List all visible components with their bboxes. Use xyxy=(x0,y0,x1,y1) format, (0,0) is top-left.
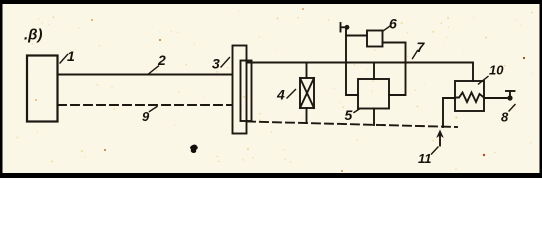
plug symbol 8: node dot xyxy=(507,95,512,100)
svg-text:4: 4 xyxy=(276,87,285,103)
leader for label 3 xyxy=(221,58,230,68)
valve 5 bottom stub xyxy=(373,109,375,126)
svg-text:.β): .β) xyxy=(24,27,42,44)
plug symbol 8: stem xyxy=(509,91,511,98)
plug symbol left: tie xyxy=(341,26,346,28)
leader for label 2 xyxy=(149,66,159,74)
return dashed line xyxy=(247,122,457,128)
leader for label 4 xyxy=(287,90,296,99)
throttle 4 box xyxy=(300,78,314,108)
gauge 6 box xyxy=(367,31,383,47)
valve 5 left pilot line from plug node xyxy=(346,28,358,96)
leader for label 6 xyxy=(383,26,390,31)
throttle 4 cross X xyxy=(300,78,314,108)
leader for label 8 xyxy=(509,105,515,112)
leader for label 7 xyxy=(413,51,418,59)
ink blob xyxy=(190,145,198,154)
paper speckles xyxy=(16,8,533,172)
svg-text:9: 9 xyxy=(142,109,150,124)
svg-text:6: 6 xyxy=(389,16,397,32)
svg-text:7: 7 xyxy=(417,39,426,55)
heater 10 left port pipe to return line xyxy=(443,98,455,127)
heater 10 right port pipe xyxy=(484,97,507,99)
cylinder 3 outer body xyxy=(233,46,247,134)
leader for label 5 xyxy=(354,109,360,113)
throttle 4 bottom stem xyxy=(306,108,308,123)
leader for label 1 xyxy=(60,55,68,64)
svg-text:11: 11 xyxy=(418,151,432,166)
svg-text:5: 5 xyxy=(345,107,353,123)
svg-text:3: 3 xyxy=(212,56,220,72)
rod line 2 xyxy=(58,74,232,76)
heater 10 box xyxy=(455,81,484,111)
throttle 4 top stem xyxy=(306,63,308,79)
cylinder 3 inner sleeve xyxy=(241,61,252,122)
tank 1 xyxy=(27,56,58,122)
plug symbol left: bar xyxy=(340,23,342,32)
leader for label 10 xyxy=(479,77,489,85)
heater 10 zigzag xyxy=(455,93,484,103)
leader for label 11 xyxy=(432,147,439,154)
svg-text:2: 2 xyxy=(157,52,166,68)
svg-text:10: 10 xyxy=(489,63,504,78)
paper background xyxy=(0,0,542,178)
main pressure line to element 10 xyxy=(247,63,474,82)
line 7 from gauge to valve right pilot xyxy=(383,43,406,96)
arrow 11 head xyxy=(436,130,444,139)
leader for label 9 xyxy=(150,107,158,112)
arrow 11 stem xyxy=(439,136,441,146)
valve 5 top stub xyxy=(373,63,375,80)
border frame xyxy=(0,0,542,4)
gauge 6 feed line xyxy=(346,35,367,37)
svg-text:1: 1 xyxy=(67,48,75,64)
plug symbol left: node dot xyxy=(345,25,350,30)
plug symbol 8: cap xyxy=(506,90,515,92)
valve 5 box xyxy=(358,79,389,109)
svg-text:8: 8 xyxy=(501,110,509,125)
dashed line 9 xyxy=(58,104,232,106)
